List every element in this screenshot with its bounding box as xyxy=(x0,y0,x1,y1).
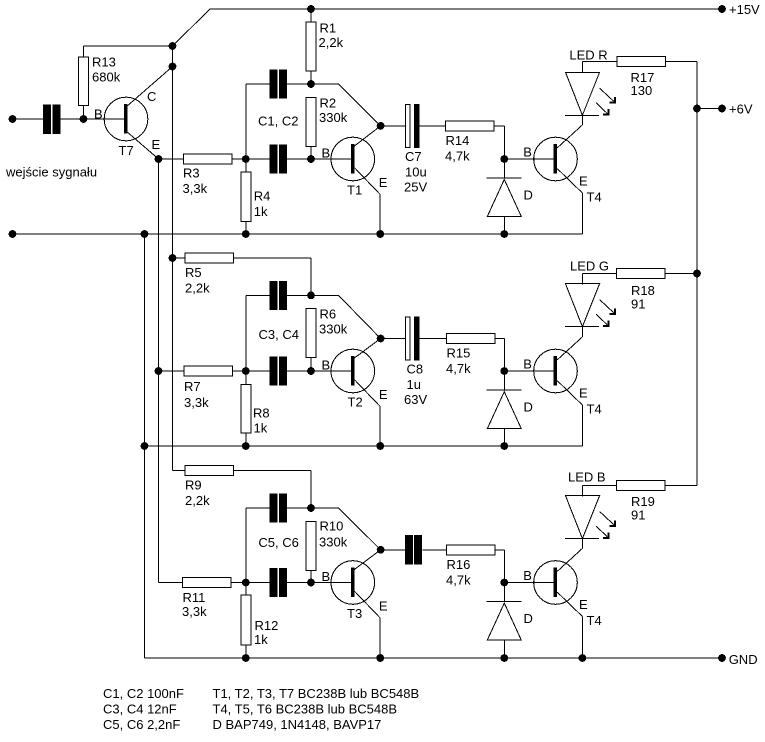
wire R10 junction to T3 collector node xyxy=(311,508,381,550)
capacitor coupling ch3 xyxy=(405,535,447,564)
transistor T2 xyxy=(322,339,388,410)
wire node to coupling cap ch3 xyxy=(381,549,405,551)
wire R6 junction to T2 collector node xyxy=(311,295,381,338)
node T1 collector output xyxy=(377,122,385,130)
transistor T4 ch1 xyxy=(523,125,601,205)
node T3 collector output xyxy=(377,546,385,554)
svg-text:R8: R8 xyxy=(253,406,270,421)
svg-text:B: B xyxy=(523,357,532,372)
resistor R19 xyxy=(616,481,697,523)
svg-text:E: E xyxy=(579,597,588,612)
svg-text:R1: R1 xyxy=(320,21,337,36)
node junction diode rail ch3 xyxy=(500,654,508,662)
svg-text:4,7k: 4,7k xyxy=(446,573,471,588)
resistor R18 xyxy=(617,269,698,312)
svg-text:wejście sygnału: wejście sygnału xyxy=(5,165,97,180)
node junction T1 emitter rail xyxy=(376,230,384,238)
svg-text:T7: T7 xyxy=(119,143,134,158)
wire +6V stub xyxy=(697,108,722,110)
capacitor C1 xyxy=(246,69,311,128)
wire LED B anode to R19 xyxy=(582,485,616,487)
label transistor and diode types column xyxy=(213,686,420,732)
svg-text:1k: 1k xyxy=(254,632,268,647)
node junction T7 emitter line R7 xyxy=(155,367,163,375)
capacitor C4 xyxy=(246,356,311,385)
wire R5 to C3 junction xyxy=(310,258,312,295)
svg-text:B: B xyxy=(322,569,331,584)
svg-text:130: 130 xyxy=(631,83,653,98)
node junction T4 base ch1 xyxy=(500,155,508,163)
svg-text:E: E xyxy=(379,175,388,190)
node junction C1 R2 xyxy=(307,80,315,88)
capacitor C7 xyxy=(404,104,446,194)
svg-text:T2: T2 xyxy=(348,395,363,410)
svg-text:B: B xyxy=(94,107,103,122)
svg-text:T4, T5, T6 BC238B lub BC548B: T4, T5, T6 BC238B lub BC548B xyxy=(213,702,398,717)
wire node to C8 xyxy=(381,338,405,340)
svg-text:T1, T2, T3, T7 BC238B lub BC54: T1, T2, T3, T7 BC238B lub BC548B xyxy=(213,686,420,701)
svg-text:B: B xyxy=(322,146,331,161)
svg-text:E: E xyxy=(579,385,588,400)
svg-text:91: 91 xyxy=(631,297,645,312)
node junction diode rail ch2 xyxy=(500,442,508,450)
wire cap to base node xyxy=(61,118,84,120)
wire channel1 ground rail xyxy=(13,233,583,235)
node junction ground drop xyxy=(141,230,149,238)
node junction R8 bottom xyxy=(242,442,250,450)
wire LED R anode to R17 xyxy=(582,61,617,63)
svg-text:B: B xyxy=(523,568,532,583)
resistor R5 xyxy=(173,253,312,296)
wire R2 junction to T1 collector node xyxy=(311,84,381,126)
node junction T3 base xyxy=(307,579,315,587)
wire T5 collector to LED G xyxy=(581,327,583,337)
wire T4 emitter to rail ch1 xyxy=(581,193,583,234)
wire T1 emitter to rail xyxy=(379,195,381,235)
svg-text:330k: 330k xyxy=(319,535,348,550)
label wejscie sygnalu xyxy=(5,165,97,180)
wire +15V vertical feed line xyxy=(172,46,174,471)
node junction R13 top xyxy=(169,42,177,50)
diode D ch1 xyxy=(487,159,533,234)
node junction R18 +6V line xyxy=(693,270,701,278)
label capacitor values column xyxy=(103,686,184,732)
svg-text:D: D xyxy=(524,400,533,415)
node +15V terminal xyxy=(718,2,760,17)
svg-text:R11: R11 xyxy=(183,590,206,605)
node +6V terminal xyxy=(718,102,753,117)
wire base to T4 ch1 xyxy=(504,158,554,160)
transistor T1 xyxy=(322,126,388,198)
svg-text:2,2k: 2,2k xyxy=(185,281,210,296)
wire signal vertical line xyxy=(158,159,160,583)
svg-text:E: E xyxy=(379,387,388,402)
node junction T6 base xyxy=(500,579,508,587)
svg-text:C5, C6: C5, C6 xyxy=(258,535,298,550)
svg-text:R3: R3 xyxy=(183,166,200,181)
resistor R2 xyxy=(306,96,348,160)
svg-text:4,7k: 4,7k xyxy=(445,149,470,164)
node junction R4 bottom xyxy=(242,230,250,238)
node junction R12 bottom xyxy=(242,654,250,662)
svg-text:10u: 10u xyxy=(405,165,427,180)
node junction T1 base xyxy=(307,155,315,163)
node junction R11 R12 C6 xyxy=(242,579,250,587)
wire R9 to C5 junction xyxy=(310,471,312,509)
svg-text:D: D xyxy=(524,188,533,203)
diode D ch2 xyxy=(487,371,533,446)
capacitor C3 xyxy=(246,281,311,342)
wire T3 emitter to rail xyxy=(379,618,381,658)
svg-text:R9: R9 xyxy=(185,478,202,493)
wire GND rail xyxy=(145,657,723,659)
node junction +6V tap xyxy=(693,105,701,113)
wire ground vertical line xyxy=(144,234,146,658)
svg-text:+6V: +6V xyxy=(729,102,753,117)
transistor T5 labeled T4 xyxy=(523,337,601,417)
svg-text:LED B: LED B xyxy=(568,470,606,485)
node T2 collector output xyxy=(377,335,385,343)
svg-text:R10: R10 xyxy=(320,519,344,534)
LED B xyxy=(565,470,615,539)
svg-text:91: 91 xyxy=(631,508,645,523)
svg-text:LED R: LED R xyxy=(569,48,607,63)
resistor R6 xyxy=(306,307,348,372)
wire T4 collector to LED R xyxy=(581,115,583,125)
node T7 emitter junction xyxy=(155,155,163,163)
wire channel2 ground rail xyxy=(145,445,583,447)
svg-text:R2: R2 xyxy=(320,96,337,111)
transistor T6 labeled T4 xyxy=(523,549,601,629)
svg-text:R5: R5 xyxy=(185,265,202,280)
capacitor C5 xyxy=(246,493,311,550)
svg-text:25V: 25V xyxy=(404,180,427,195)
wire C3 left vertical xyxy=(245,295,247,371)
svg-text:C3, C4 12nF: C3, C4 12nF xyxy=(103,702,177,717)
svg-text:R7: R7 xyxy=(184,379,201,394)
resistor R3 xyxy=(159,154,246,196)
node junction T7 base xyxy=(80,115,88,123)
resistor R14 xyxy=(445,121,504,164)
node junction ground line ch2 xyxy=(141,442,149,450)
diode D ch3 xyxy=(487,583,533,659)
svg-text:T4: T4 xyxy=(587,613,602,628)
svg-text:R13: R13 xyxy=(92,55,116,70)
wire C1 left vertical xyxy=(245,84,247,159)
wire C5 left vertical xyxy=(245,508,247,583)
node input terminal lower xyxy=(9,230,17,238)
wire node to C7 xyxy=(381,125,405,127)
wire T6 emitter to rail ch3 xyxy=(581,617,583,659)
node junction T3 emitter rail xyxy=(376,654,384,662)
svg-text:D: D xyxy=(524,611,533,626)
svg-text:E: E xyxy=(579,173,588,188)
node junction R7 R8 C4 xyxy=(242,367,250,375)
wire LED G anode to R18 xyxy=(582,273,616,275)
svg-text:T3: T3 xyxy=(347,606,362,621)
svg-text:1k: 1k xyxy=(254,421,268,436)
node junction T6 emitter rail xyxy=(579,654,587,662)
capacitor C8 xyxy=(404,317,447,407)
resistor R15 xyxy=(446,334,504,377)
node junction diode rail ch1 xyxy=(500,230,508,238)
svg-text:E: E xyxy=(152,137,161,152)
resistor R8 xyxy=(241,371,270,446)
capacitor C6 xyxy=(246,568,311,597)
node junction R5 feed xyxy=(169,254,177,262)
svg-text:1k: 1k xyxy=(254,204,268,219)
resistor R16 xyxy=(446,545,504,588)
node junction R3 R4 C2 xyxy=(242,155,250,163)
resistor R1 xyxy=(306,9,344,84)
wire +15V top rail xyxy=(210,8,722,10)
wire T6 collector to LED B xyxy=(581,539,583,549)
resistor R12 xyxy=(241,583,279,659)
wire base to T5 xyxy=(504,370,554,372)
resistor R13 xyxy=(79,46,173,119)
resistor R10 xyxy=(306,519,348,583)
svg-text:C7: C7 xyxy=(405,149,422,164)
svg-text:330k: 330k xyxy=(319,110,348,125)
svg-text:2,2k: 2,2k xyxy=(185,493,210,508)
node junction C3 R6 xyxy=(307,292,315,300)
svg-text:3,3k: 3,3k xyxy=(183,181,208,196)
svg-text:D BAP749, 1N4148, BAVP17: D BAP749, 1N4148, BAVP17 xyxy=(213,717,382,732)
LED R xyxy=(565,48,615,116)
svg-text:T4: T4 xyxy=(587,190,602,205)
wire base to T3 xyxy=(311,582,351,584)
wire base to T1 xyxy=(311,158,351,160)
svg-text:C1, C2 100nF: C1, C2 100nF xyxy=(103,686,184,701)
wire T5 emitter to rail ch2 xyxy=(581,405,583,446)
node junction C5 R10 xyxy=(307,504,315,512)
svg-text:R6: R6 xyxy=(320,307,337,322)
svg-text:R12: R12 xyxy=(255,618,279,633)
wire base to T6 xyxy=(504,582,554,584)
svg-text:C1, C2: C1, C2 xyxy=(258,114,298,129)
svg-text:T4: T4 xyxy=(587,402,602,417)
resistor R11 xyxy=(159,578,246,620)
wire T2 emitter to rail xyxy=(379,407,381,447)
wire base to T2 xyxy=(311,370,351,372)
svg-text:C8: C8 xyxy=(407,362,424,377)
node junction T7 collector xyxy=(169,63,177,71)
node input terminal upper xyxy=(9,115,17,123)
capacitor C2 xyxy=(246,144,311,173)
transistor T7 xyxy=(94,67,173,160)
svg-text:680k: 680k xyxy=(92,70,121,85)
resistor R4 xyxy=(241,159,271,234)
wire diagonal top rail to R13/T7 node xyxy=(173,9,211,46)
svg-text:T1: T1 xyxy=(347,183,362,198)
svg-text:63V: 63V xyxy=(404,392,427,407)
svg-text:C: C xyxy=(147,89,156,104)
resistor R17 xyxy=(617,57,697,99)
svg-text:3,3k: 3,3k xyxy=(184,395,209,410)
svg-text:+15V: +15V xyxy=(729,2,760,17)
node GND terminal xyxy=(718,652,757,667)
resistor R9 xyxy=(173,466,312,509)
svg-text:R16: R16 xyxy=(447,557,471,572)
svg-text:4,7k: 4,7k xyxy=(446,361,471,376)
svg-text:330k: 330k xyxy=(319,322,348,337)
node junction T2 base xyxy=(307,367,315,375)
svg-text:LED G: LED G xyxy=(570,259,609,274)
svg-text:3,3k: 3,3k xyxy=(182,604,207,619)
wire +6V vertical line xyxy=(696,62,698,486)
svg-text:B: B xyxy=(322,358,331,373)
svg-text:E: E xyxy=(379,599,388,614)
node junction T5 base xyxy=(500,367,508,375)
wire base node to T7 xyxy=(84,118,124,120)
svg-text:R15: R15 xyxy=(447,346,471,361)
svg-text:C3, C4: C3, C4 xyxy=(259,327,299,342)
transistor T3 xyxy=(322,550,388,621)
wire input to coupling cap xyxy=(13,118,44,120)
svg-text:1u: 1u xyxy=(407,377,421,392)
svg-text:2,2k: 2,2k xyxy=(319,35,344,50)
node junction T2 emitter rail xyxy=(376,442,384,450)
svg-text:R14: R14 xyxy=(446,133,470,148)
node junction top rail R1 xyxy=(307,5,315,13)
svg-text:B: B xyxy=(523,145,532,160)
svg-text:C5, C6 2,2nF: C5, C6 2,2nF xyxy=(103,717,180,732)
svg-text:R4: R4 xyxy=(254,189,271,204)
LED G xyxy=(565,259,615,327)
capacitor input coupling xyxy=(43,105,60,134)
resistor R7 xyxy=(159,366,246,410)
svg-text:GND: GND xyxy=(729,652,758,667)
